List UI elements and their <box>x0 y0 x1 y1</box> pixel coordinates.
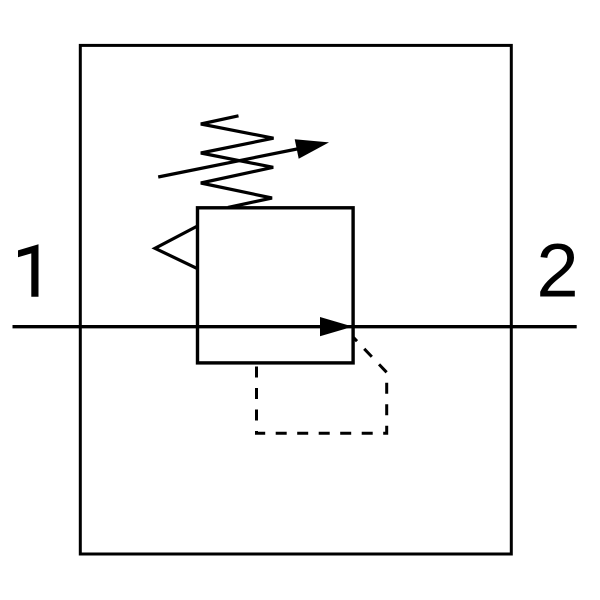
svg-text:2: 2 <box>536 229 578 314</box>
